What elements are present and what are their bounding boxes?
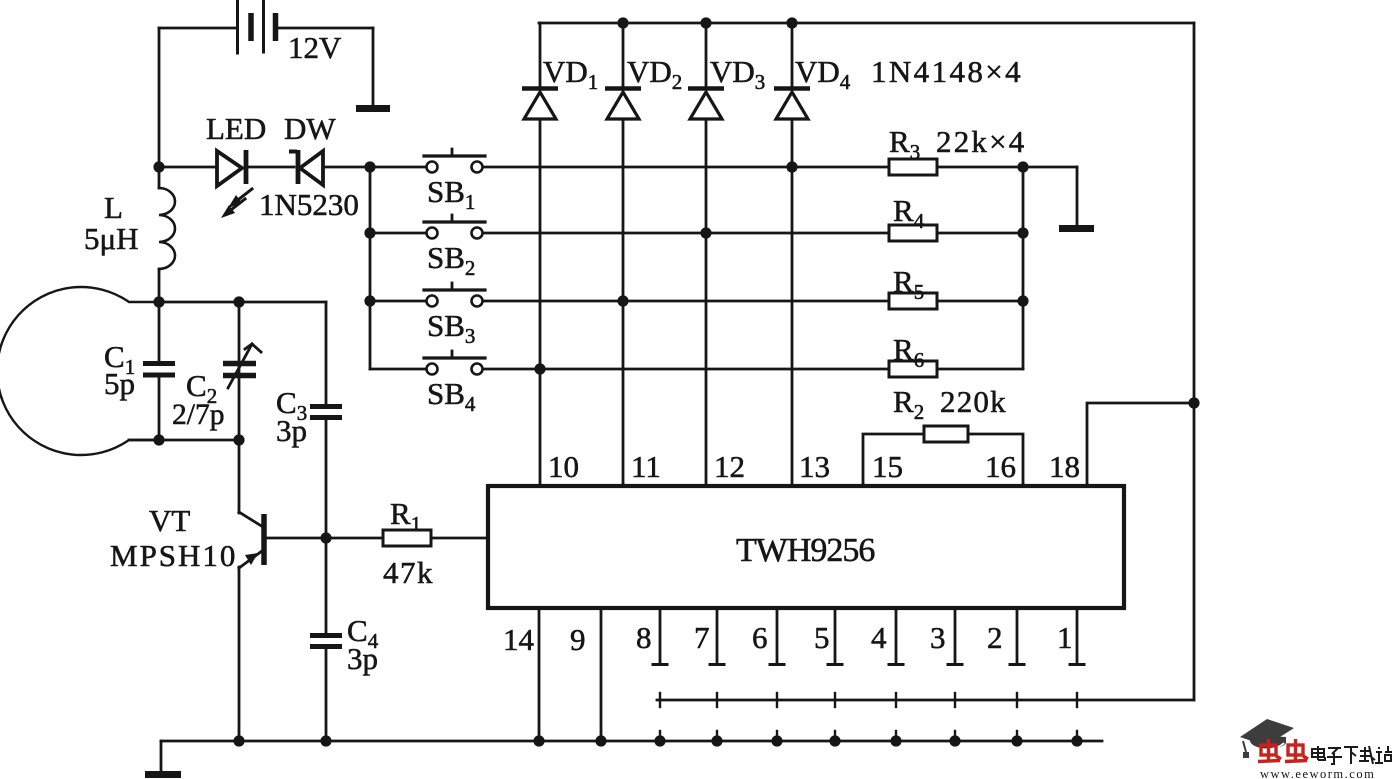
svg-text:5p: 5p xyxy=(104,366,135,401)
wire R5 to resistor bus xyxy=(937,300,1023,303)
svg-text:www.eeworm.com: www.eeworm.com xyxy=(1260,767,1375,779)
node tank top right xyxy=(233,296,244,307)
wire R6 to resistor bus xyxy=(937,368,1023,371)
svg-text:6: 6 xyxy=(752,620,768,655)
svg-text:8: 8 xyxy=(636,620,652,655)
node SB2 bus junction xyxy=(364,227,375,238)
wire R2 bracket left xyxy=(863,434,924,486)
node SB3 row / pin11 line xyxy=(617,295,628,306)
svg-text:1: 1 xyxy=(1057,620,1073,655)
svg-text:DW: DW xyxy=(284,111,336,146)
wire resistor bus vertical xyxy=(1022,167,1025,369)
LED emission arrows xyxy=(221,189,252,218)
wire SB1 row to R3 xyxy=(483,166,889,169)
svg-text:VD3: VD3 xyxy=(710,54,765,94)
wire tank top row xyxy=(159,301,326,304)
pin 3 stub xyxy=(948,608,962,665)
svg-text:VD4: VD4 xyxy=(795,54,851,94)
svg-text:2: 2 xyxy=(987,620,1003,655)
svg-text:10: 10 xyxy=(548,449,579,484)
node pin6/ground bus xyxy=(771,735,782,746)
svg-text:3p: 3p xyxy=(276,413,307,448)
node SB2 row / pin12 line xyxy=(700,227,711,238)
LED diode VD (LED) xyxy=(217,150,246,186)
svg-text:1N4148×4: 1N4148×4 xyxy=(871,54,1023,89)
wire bus to SB3 xyxy=(370,300,426,303)
wire DW to switch bus xyxy=(323,166,426,169)
wire R3 to resistor bus xyxy=(937,166,1077,169)
wire SB3 row to R5 xyxy=(483,300,889,303)
node pin8/ground bus xyxy=(654,735,665,746)
resistor R5 22k xyxy=(889,293,937,309)
switch SB2 xyxy=(424,215,485,239)
svg-text:12: 12 xyxy=(714,449,745,484)
node pin5/ground bus xyxy=(829,735,840,746)
svg-text:47k: 47k xyxy=(383,555,434,590)
svg-text:16: 16 xyxy=(985,449,1016,484)
svg-text:LED: LED xyxy=(206,111,266,146)
capacitor C3 3p xyxy=(310,407,342,539)
svg-text:14: 14 xyxy=(503,622,535,657)
wire down to battery ground xyxy=(372,28,375,105)
diode VD1 1N4148 xyxy=(522,23,558,486)
svg-text:MPSH10: MPSH10 xyxy=(110,538,237,573)
diode VD4 1N4148 xyxy=(774,23,810,486)
svg-text:2/7p: 2/7p xyxy=(172,399,224,431)
wire crossing ticks on lower rail xyxy=(660,693,1077,707)
svg-text:SB1: SB1 xyxy=(427,174,475,214)
resistor R3 22k xyxy=(889,159,937,175)
svg-text:SB2: SB2 xyxy=(427,240,475,280)
watermark text dianzixiazaizhan xyxy=(1312,746,1392,764)
svg-text:VD2: VD2 xyxy=(627,54,682,94)
node tank bottom right xyxy=(233,434,244,445)
capacitor C2 2/7p variable xyxy=(223,302,261,440)
node SB4 row / pin10 line xyxy=(534,363,545,374)
resistor R4 22k xyxy=(889,225,937,241)
switch SB4 xyxy=(424,351,485,375)
wire lower horizontal rail xyxy=(657,699,1194,702)
node pin18/right rail xyxy=(1188,397,1199,408)
node pin7/ground bus xyxy=(711,735,722,746)
wire LED to DW xyxy=(248,166,294,169)
node pin3/ground bus xyxy=(949,735,960,746)
svg-text:220k: 220k xyxy=(940,384,1007,419)
resistor R2 220k xyxy=(924,426,968,442)
svg-text:18: 18 xyxy=(1049,449,1080,484)
wire bus to SB2 xyxy=(370,232,426,235)
svg-text:R6: R6 xyxy=(893,332,924,372)
node C4/ground bus xyxy=(320,735,331,746)
wire battery negative to right xyxy=(278,27,373,30)
capacitor C4 3p xyxy=(310,636,342,742)
node top bus VD3 xyxy=(700,17,711,28)
ground (battery) xyxy=(356,105,390,112)
wire top supply bus xyxy=(539,22,1194,25)
wire to R-bus ground xyxy=(1076,167,1079,225)
svg-text:12V: 12V xyxy=(288,30,342,65)
svg-text:SB3: SB3 xyxy=(427,308,475,348)
pin 1 stub xyxy=(1070,608,1084,665)
svg-text:22k×4: 22k×4 xyxy=(936,124,1026,159)
wire R2 bracket right xyxy=(968,434,1023,486)
node pin1/ground bus xyxy=(1071,735,1082,746)
svg-text:TWH9256: TWH9256 xyxy=(736,532,874,569)
battery GB 12V xyxy=(238,0,276,53)
svg-text:5: 5 xyxy=(814,620,830,655)
node battery/LED junction xyxy=(153,161,164,172)
svg-text:R5: R5 xyxy=(893,264,924,304)
svg-text:R3: R3 xyxy=(889,124,920,164)
pin 2 stub xyxy=(1010,608,1024,665)
svg-text:7: 7 xyxy=(694,620,710,655)
svg-text:9: 9 xyxy=(570,622,586,657)
svg-text:1N5230: 1N5230 xyxy=(259,187,359,222)
node pin4/ground bus xyxy=(890,735,901,746)
wire R4 to resistor bus xyxy=(937,232,1023,235)
pin 4 stub xyxy=(889,608,903,665)
wire bus to SB4 xyxy=(370,368,426,371)
wire tank bottom row xyxy=(129,439,243,442)
antenna loop xyxy=(0,287,159,455)
svg-text:4: 4 xyxy=(871,620,887,655)
wire ground bus stubs xyxy=(660,731,1077,741)
wire battery positive to left xyxy=(159,27,236,30)
diode VD2 1N4148 xyxy=(605,23,641,486)
resistor R1 47k xyxy=(383,530,431,546)
resistor R6 22k xyxy=(889,361,937,377)
pin 6 stub xyxy=(770,608,784,665)
transistor VT MPSH10 xyxy=(239,440,264,741)
svg-text:11: 11 xyxy=(631,449,661,484)
node top bus VD2 xyxy=(617,17,628,28)
capacitor C1 5p xyxy=(143,302,175,440)
inductor L 5uH xyxy=(159,167,175,302)
node R5/resistor bus xyxy=(1017,295,1028,306)
ground (resistor bus) xyxy=(1059,225,1094,232)
wire pin 18 xyxy=(1087,403,1194,486)
node SB3 bus junction xyxy=(364,295,375,306)
node pin14/ground bus xyxy=(533,735,544,746)
watermark text chongchong xyxy=(1258,739,1308,762)
wire node to LED anode xyxy=(159,166,216,169)
zener diode DW 1N5230 xyxy=(289,150,323,185)
node top bus VD4 xyxy=(786,17,797,28)
wire tank row to C3 branch xyxy=(325,302,328,403)
node pin9/ground bus xyxy=(595,735,606,746)
node tank bottom left xyxy=(153,434,164,445)
wire ground bus to main ground xyxy=(160,741,163,771)
svg-text:3: 3 xyxy=(930,620,946,655)
node R4/resistor bus xyxy=(1017,227,1028,238)
ground (main) xyxy=(145,771,181,778)
svg-text:13: 13 xyxy=(799,449,830,484)
wire right supply rail xyxy=(1193,23,1196,700)
node emitter/ground bus xyxy=(233,735,244,746)
wire ground bus xyxy=(161,740,1102,743)
svg-text:R2: R2 xyxy=(893,384,924,424)
watermark logo graduation cap xyxy=(1240,719,1294,758)
switch SB3 xyxy=(424,283,485,307)
svg-text:5μH: 5μH xyxy=(84,221,139,256)
op-amp U1 TWH9256 IC body xyxy=(488,486,1124,608)
node pin2/ground bus xyxy=(1011,735,1022,746)
svg-text:SB4: SB4 xyxy=(427,376,476,416)
svg-text:15: 15 xyxy=(872,449,903,484)
svg-text:3p: 3p xyxy=(347,641,378,676)
wire pin 9 xyxy=(600,608,603,741)
svg-text:VD1: VD1 xyxy=(543,54,598,94)
svg-text:L: L xyxy=(104,190,123,225)
pin 5 stub xyxy=(828,608,842,665)
wire left rail down to LED node xyxy=(158,28,161,167)
wire SB4 row to R6 xyxy=(483,368,889,371)
pin 8 stub xyxy=(653,608,667,665)
pin 7 stub xyxy=(710,608,724,665)
svg-text:R1: R1 xyxy=(390,496,421,536)
node SB1 row / pin13 line xyxy=(786,161,797,172)
wire base to R1 xyxy=(266,537,383,540)
wire SB2 row to R4 xyxy=(483,232,889,235)
wire pin 14 xyxy=(538,608,541,741)
diode VD3 1N4148 xyxy=(688,23,724,486)
svg-text:VT: VT xyxy=(149,503,190,538)
node R3/resistor bus xyxy=(1017,161,1028,172)
switch SB1 xyxy=(424,149,485,173)
wire base node down to C4 xyxy=(325,538,328,633)
node base junction xyxy=(320,532,331,543)
wire switch bus vertical xyxy=(369,167,372,369)
wire R1 to IC xyxy=(431,537,488,540)
svg-text:R4: R4 xyxy=(893,193,925,233)
node DW/SB bus junction xyxy=(364,161,375,172)
node tank top left xyxy=(153,296,164,307)
